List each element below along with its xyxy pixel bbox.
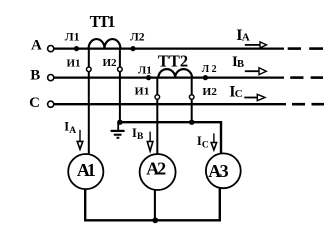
dashed continuation phase A — [288, 47, 301, 50]
svg-text:А2: А2 — [146, 158, 166, 178]
arrow IC down — [211, 133, 216, 150]
svg-text:И2: И2 — [102, 57, 117, 69]
svg-text:Л1: Л1 — [65, 29, 80, 43]
svg-text:И1: И1 — [66, 58, 80, 70]
svg-text:В: В — [237, 59, 244, 70]
wire TT1 И2 stub — [119, 49, 121, 68]
node bus-ground junction — [117, 120, 122, 125]
wire phase A — [54, 47, 284, 49]
ground — [111, 122, 125, 138]
terminal И1 TT2 — [155, 95, 160, 100]
node Л1 TT2 (junction) — [146, 75, 151, 80]
svg-text:А: А — [242, 31, 250, 43]
wire TT1 И2 down to common bus — [119, 72, 121, 123]
wire common bus — [120, 122, 221, 154]
wire TT2 И2 down to common bus — [191, 99, 193, 122]
svg-text:Л2: Л2 — [130, 30, 145, 44]
svg-text:ТТ2: ТТ2 — [158, 51, 188, 70]
svg-text:С: С — [235, 88, 243, 100]
node bus TT2-И2 junction — [189, 120, 194, 125]
wire A2 bottom to bus — [154, 190, 156, 221]
wire TT2 И2 stub — [191, 78, 193, 95]
terminal C — [48, 101, 54, 107]
terminal И1 TT1 — [87, 67, 92, 72]
node Л1 TT1 (junction) — [74, 46, 79, 51]
wire TT2 И1 to ammeter A2 — [156, 99, 158, 154]
dashed continuation phase C — [292, 103, 305, 106]
node Л2 TT1 (junction) — [130, 46, 135, 51]
ammeter A2 — [140, 154, 176, 190]
wire TT1 И1 stub — [88, 49, 90, 68]
svg-text:А: А — [31, 38, 42, 54]
ammeter A3 — [206, 153, 241, 188]
wire TT1 И1 to ammeter A1 — [88, 72, 90, 155]
ammeter A1 — [68, 154, 103, 189]
transformer TT2 winding arcs — [158, 69, 192, 78]
svg-text:И2: И2 — [202, 87, 217, 98]
dashed continuation phase B — [290, 76, 303, 79]
arrow IC right — [244, 94, 265, 100]
wire TT2 И1 stub — [156, 78, 158, 95]
svg-text:С: С — [29, 95, 40, 111]
transformer TT1 winding arcs — [89, 39, 121, 49]
arrow IA down — [77, 130, 83, 149]
node Л2 TT2 (junction) — [203, 75, 208, 80]
svg-text:Л1: Л1 — [138, 66, 152, 77]
svg-text:А: А — [69, 126, 76, 136]
svg-text:В: В — [30, 68, 40, 84]
wire phase B — [54, 76, 284, 78]
svg-text:В: В — [137, 132, 144, 142]
svg-text:Л 2: Л 2 — [202, 64, 217, 75]
node bottom bus junction — [152, 217, 158, 223]
terminal B — [48, 75, 54, 81]
arrow IB down — [147, 132, 153, 151]
terminal A — [48, 46, 54, 52]
wire A1 bottom to bus — [85, 188, 220, 220]
svg-text:С: С — [202, 140, 209, 150]
svg-text:И1: И1 — [135, 87, 150, 98]
wire phase C — [54, 103, 286, 105]
terminal И2 TT2 — [189, 95, 194, 100]
svg-text:А3: А3 — [208, 161, 228, 181]
arrow IB right — [245, 68, 266, 75]
arrow IA right — [245, 42, 267, 48]
svg-text:ТТ1: ТТ1 — [90, 12, 116, 31]
terminal И2 TT1 — [118, 67, 123, 72]
